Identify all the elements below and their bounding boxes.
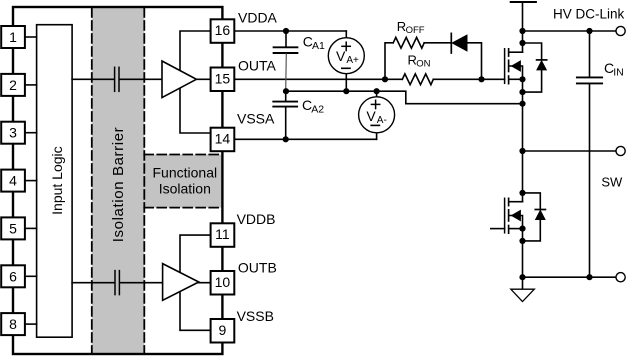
pin 3 bbox=[1, 122, 25, 144]
wire channel A input logic to barrier cap bbox=[72, 78, 113, 80]
body diode Q2 bbox=[523, 193, 541, 210]
wire ROFF to diode bbox=[424, 42, 451, 44]
ground bbox=[511, 289, 535, 301]
functional isolation top dashed border bbox=[144, 154, 221, 156]
voltage source VA+ bbox=[345, 31, 347, 38]
wire VDDA bbox=[234, 30, 346, 32]
wire VSSA bbox=[234, 138, 376, 140]
svg-text:Input Logic: Input Logic bbox=[49, 146, 65, 215]
diode D1 (anti-parallel with ROFF) bbox=[450, 33, 452, 53]
resistor ROFF bbox=[393, 37, 424, 48]
junction Q1 drain / body diode bbox=[519, 40, 525, 46]
pin 8 bbox=[1, 313, 25, 335]
svg-text:2: 2 bbox=[9, 77, 17, 93]
junction OUTA / ROFF branch bbox=[382, 76, 388, 82]
top rail riser bbox=[511, 1, 536, 3]
junction Q1 drain / HV rail bbox=[519, 28, 525, 34]
junction Q2 source lead bbox=[519, 226, 525, 232]
pin 11 VDDB bbox=[211, 223, 235, 247]
junction Q2 drain / body diode bbox=[519, 190, 525, 196]
svg-text:Functional: Functional bbox=[153, 164, 218, 180]
junction Q2 source / body diode bbox=[519, 238, 525, 244]
junction gate node / diode branch bbox=[478, 76, 484, 82]
terminal SW bbox=[616, 146, 625, 155]
chip body U1 bbox=[13, 7, 222, 354]
pin 15 OUTA bbox=[211, 68, 235, 92]
junction SW node bbox=[519, 148, 525, 154]
svg-text:A1: A1 bbox=[312, 40, 325, 52]
svg-text:11: 11 bbox=[215, 226, 230, 242]
terminal bottom bbox=[616, 273, 625, 282]
barrier capacitor B bbox=[114, 271, 116, 295]
capacitor CIN bbox=[589, 31, 591, 77]
svg-text:15: 15 bbox=[215, 70, 231, 86]
svg-text:16: 16 bbox=[215, 22, 231, 38]
chip border bbox=[13, 7, 222, 354]
resistor RON bbox=[402, 74, 433, 85]
svg-text:ON: ON bbox=[416, 59, 430, 70]
svg-text:9: 9 bbox=[219, 322, 227, 338]
wire diode to gate node bbox=[467, 43, 482, 80]
svg-text:V: V bbox=[336, 48, 346, 64]
svg-text:SW: SW bbox=[601, 175, 623, 190]
svg-text:14: 14 bbox=[215, 131, 231, 147]
wire RON to gate bbox=[433, 78, 504, 80]
pin 16 VDDA bbox=[211, 19, 235, 43]
junction VDDA / CA1 bbox=[283, 28, 289, 34]
pin 5 bbox=[1, 217, 25, 239]
svg-text:OFF: OFF bbox=[406, 25, 425, 36]
svg-text:A2: A2 bbox=[311, 104, 324, 116]
svg-text:V: V bbox=[366, 108, 376, 124]
svg-text:HV DC-Link: HV DC-Link bbox=[553, 7, 625, 22]
junction COM / CA1-CA2 bbox=[283, 88, 289, 94]
capacitor CA1 bbox=[285, 31, 287, 46]
buffer B supply wires bbox=[180, 235, 211, 330]
svg-text:5: 5 bbox=[9, 220, 17, 236]
svg-text:VSSB: VSSB bbox=[237, 308, 274, 324]
ROFF branch up bbox=[385, 43, 393, 80]
isolation barrier right dashed border bbox=[143, 8, 145, 353]
wire channel B input logic to barrier cap bbox=[72, 282, 114, 284]
functional isolation shading bbox=[144, 155, 221, 208]
svg-text:8: 8 bbox=[9, 316, 17, 332]
wire channel B barrier cap to buffer and pin 10 bbox=[120, 282, 210, 284]
svg-text:OUTB: OUTB bbox=[238, 260, 277, 276]
pin 4 bbox=[1, 170, 25, 192]
svg-text:VDDA: VDDA bbox=[238, 10, 278, 26]
terminal HV bbox=[616, 26, 625, 35]
svg-text:Isolation: Isolation bbox=[159, 180, 211, 196]
voltage source VA- bbox=[376, 91, 378, 97]
transistor Q2 (low side MOSFET) bbox=[504, 198, 506, 233]
buffer A supply wires bbox=[180, 31, 211, 133]
isolation barrier left dashed border bbox=[91, 8, 93, 353]
pin 1 bbox=[1, 26, 25, 48]
junction COM / VA+ bbox=[343, 88, 349, 94]
svg-text:OUTA: OUTA bbox=[238, 58, 277, 74]
svg-text:IN: IN bbox=[613, 67, 624, 79]
junction ground node bbox=[519, 274, 525, 280]
junction ground rail / CIN bbox=[586, 274, 592, 280]
body diode Q1 bbox=[523, 43, 542, 60]
op-amp buffer B bbox=[163, 264, 199, 301]
bottom rail bbox=[523, 276, 617, 278]
isolation barrier shading bbox=[92, 8, 145, 353]
barrier capacitor A bbox=[114, 67, 116, 91]
wire OUTA to RON bbox=[234, 78, 402, 80]
SW rail bbox=[523, 150, 617, 152]
wire channel A barrier cap to buffer and pin 15 bbox=[120, 78, 211, 80]
svg-text:3: 3 bbox=[9, 125, 17, 141]
svg-text:VDDB: VDDB bbox=[237, 211, 276, 227]
junction Q1 source / COM wire bbox=[519, 101, 525, 107]
pin 6 bbox=[1, 265, 25, 287]
svg-text:VSSA: VSSA bbox=[237, 111, 275, 127]
svg-text:10: 10 bbox=[215, 274, 231, 290]
svg-text:6: 6 bbox=[9, 268, 17, 284]
COM wire between sources bbox=[286, 91, 523, 104]
junction VSSA / CA2 bbox=[283, 136, 289, 142]
svg-text:4: 4 bbox=[9, 173, 17, 189]
transistor Q1 (high side MOSFET) bbox=[504, 49, 506, 84]
junction Q1 source / body diode bbox=[519, 89, 525, 95]
gate stub Q2 bbox=[491, 228, 505, 230]
pin 14 VSSA bbox=[211, 128, 235, 152]
junction HV rail / CIN bbox=[586, 28, 592, 34]
pin 9 VSSB bbox=[211, 319, 235, 343]
HV DC-Link rail bbox=[523, 30, 617, 32]
input logic box bbox=[37, 25, 73, 338]
junction COM / VA- bbox=[374, 88, 380, 94]
svg-text:A-: A- bbox=[377, 115, 387, 126]
svg-text:1: 1 bbox=[9, 29, 17, 45]
vertical main line to SW bbox=[522, 79, 524, 201]
capacitor CA2 bbox=[285, 91, 287, 101]
junction Q1 source lead bbox=[519, 76, 525, 82]
pin 2 bbox=[1, 74, 25, 96]
pin 10 OUTB bbox=[211, 271, 235, 295]
svg-text:A+: A+ bbox=[346, 55, 359, 66]
vertical to ground bbox=[522, 229, 524, 290]
op-amp buffer A bbox=[162, 61, 196, 98]
svg-text:Isolation Barrier: Isolation Barrier bbox=[110, 127, 127, 243]
functional isolation bottom dashed border bbox=[144, 207, 221, 209]
